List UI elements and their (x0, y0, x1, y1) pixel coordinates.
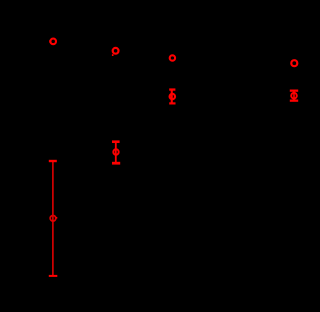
node B (112, 48, 119, 56)
error bar F (49, 160, 58, 277)
error bar C2 (169, 88, 175, 104)
node A (49, 39, 56, 45)
error bar D2 (290, 90, 298, 102)
node C (170, 55, 175, 60)
node D (291, 60, 297, 66)
error bar E (112, 140, 120, 164)
